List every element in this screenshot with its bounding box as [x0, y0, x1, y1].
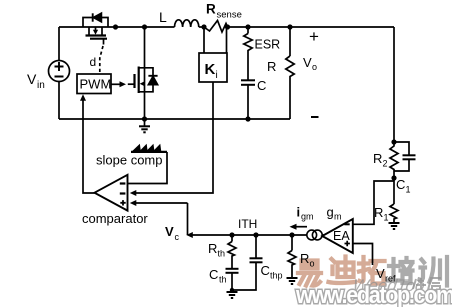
- wire ITH rail: [189, 234, 307, 236]
- label Vo plus: [309, 27, 319, 46]
- capacitor Cth: [226, 269, 239, 290]
- wire coil to Rsense: [199, 26, 204, 28]
- svg-text:V: V: [27, 71, 37, 87]
- svg-text:www.edatop.com: www.edatop.com: [295, 281, 452, 307]
- watermark www.edatop.com: [295, 281, 452, 307]
- svg-text:g: g: [327, 205, 334, 220]
- label gm: [327, 205, 342, 222]
- node dot divider: [391, 175, 396, 180]
- wire top rail right: [228, 26, 395, 28]
- svg-text:V: V: [376, 266, 385, 281]
- label Vin: [27, 71, 45, 91]
- wire EA minus input: [353, 181, 394, 224]
- resistor R load: [286, 27, 294, 119]
- svg-text:+: +: [309, 27, 319, 46]
- body arrow Q1: [93, 30, 98, 35]
- ground Ro: [287, 278, 298, 284]
- char yi: [298, 261, 321, 286]
- node dot ESR bottom: [245, 116, 250, 121]
- label Vref: [376, 266, 396, 284]
- EA plus: [345, 241, 350, 246]
- svg-text:K: K: [205, 61, 216, 78]
- svg-text:in: in: [37, 80, 45, 91]
- svg-text:th: th: [218, 249, 226, 259]
- node dot Cthp: [253, 232, 258, 237]
- node dot Rsense right: [225, 24, 230, 29]
- ground R1: [389, 223, 400, 229]
- svg-text:ref: ref: [385, 274, 396, 284]
- EA minus: [344, 223, 349, 225]
- svg-text:d: d: [90, 55, 97, 69]
- svg-text:C: C: [257, 78, 266, 93]
- comparator minus mid: [120, 192, 126, 194]
- arrow igm: [290, 224, 308, 230]
- wire Vc to comparator plus: [135, 202, 188, 204]
- ground Cth: [227, 288, 238, 298]
- resistor R2: [390, 142, 398, 171]
- resistor Ro: [288, 235, 296, 278]
- svg-text:C: C: [209, 267, 218, 282]
- sense lead right Ki: [226, 27, 228, 53]
- block Ki: [199, 53, 227, 82]
- svg-text:gm: gm: [301, 212, 314, 222]
- svg-text:i: i: [216, 70, 218, 81]
- svg-text:C: C: [396, 177, 405, 192]
- comparator plus: [120, 200, 125, 205]
- svg-text:PWM: PWM: [80, 77, 112, 92]
- node dot Q2 branch: [142, 24, 147, 29]
- label igm: [297, 205, 314, 222]
- body arrow Q2: [140, 81, 145, 86]
- resistor Rth: [228, 235, 236, 269]
- svg-text:th: th: [219, 275, 227, 285]
- svg-text:thp: thp: [270, 271, 283, 281]
- wire cs to EA: [322, 234, 324, 236]
- svg-text:R: R: [208, 241, 217, 256]
- node dot Ro: [289, 232, 294, 237]
- comparator minus top: [120, 182, 126, 184]
- watermark chinese text salmon part: [298, 257, 385, 286]
- node dot R branch: [287, 24, 292, 29]
- arrow Vc left: [186, 232, 193, 238]
- svg-text:comparator: comparator: [82, 211, 148, 226]
- capacitor C1 parallel: [394, 142, 416, 171]
- label R: [267, 59, 276, 74]
- label d: [90, 55, 97, 69]
- char pei: [388, 258, 413, 283]
- label Vc: [165, 224, 180, 242]
- arrow into PWM: [80, 94, 86, 101]
- svg-text:ESR: ESR: [255, 38, 281, 52]
- node dot ESR branch: [245, 24, 250, 29]
- wire top rail left: [59, 26, 83, 28]
- wire top rail under diode: [83, 26, 175, 28]
- label Cthp: [261, 263, 283, 281]
- transistor Q1 high-side PMOS: [83, 18, 108, 45]
- svg-text:slope comp: slope comp: [96, 153, 162, 168]
- svg-text:ITH: ITH: [238, 217, 257, 231]
- svg-text:m: m: [334, 212, 342, 222]
- label ESR: [255, 38, 281, 52]
- label PWM: [80, 77, 112, 92]
- comparator U1: [95, 175, 128, 211]
- resistor R1: [390, 204, 398, 223]
- svg-text:o: o: [310, 259, 315, 269]
- label R2: [373, 151, 388, 169]
- svg-text:L: L: [159, 9, 167, 25]
- wire bottom rail: [59, 82, 290, 120]
- char xun: [420, 257, 448, 286]
- svg-text:R: R: [206, 2, 216, 17]
- label Vo: [303, 55, 317, 72]
- svg-text:R: R: [267, 59, 276, 74]
- node dot Rsense left: [201, 24, 206, 29]
- svg-text:V: V: [303, 55, 312, 70]
- capacitor C: [241, 53, 255, 119]
- arrow into comparator minus: [130, 190, 137, 196]
- label Cth: [209, 267, 227, 285]
- char di: [329, 257, 356, 284]
- label Rth: [208, 241, 225, 259]
- label ITH: [238, 217, 257, 231]
- resistor ESR: [244, 27, 252, 53]
- svg-text:o: o: [312, 62, 317, 72]
- svg-text:R: R: [373, 151, 382, 166]
- label comparator: [82, 211, 148, 226]
- sense lead left Ki: [203, 27, 205, 53]
- transistor Q2 low-side NMOS: [128, 27, 145, 119]
- gate drive dashed line d: [100, 46, 103, 73]
- PWM block: [77, 74, 111, 94]
- svg-text:EA: EA: [333, 229, 350, 243]
- label C1: [396, 177, 411, 195]
- svg-text:1: 1: [384, 213, 389, 223]
- wire Vo right vertical: [393, 27, 395, 142]
- body diode D1: [93, 13, 102, 22]
- wire Vc vertical: [187, 203, 189, 235]
- label L: [159, 9, 167, 25]
- watermark script logo: [351, 276, 425, 295]
- svg-text:R: R: [374, 205, 383, 220]
- wire EA plus input to Vref: [353, 244, 373, 266]
- svg-text:sense: sense: [217, 10, 242, 21]
- svg-text:c: c: [175, 232, 180, 242]
- svg-text:2: 2: [383, 159, 388, 169]
- label Ro: [300, 251, 315, 269]
- arrow into comparator plus: [130, 200, 137, 206]
- voltage source Vin: [49, 61, 70, 82]
- resistor Rsense: [204, 21, 228, 33]
- sawtooth slope waveform: [133, 145, 161, 151]
- inductor L: [175, 20, 199, 27]
- char tuo: [359, 257, 385, 284]
- node dot R2 top: [391, 139, 396, 144]
- svg-text:i: i: [297, 205, 301, 220]
- svg-text:1: 1: [406, 185, 411, 195]
- watermark gray chars: [413, 278, 441, 290]
- node dot switch: [113, 24, 118, 29]
- svg-text:V: V: [165, 224, 174, 239]
- label R1: [374, 205, 389, 223]
- node dot Rth: [229, 232, 234, 237]
- wire comparator output to PWM: [83, 97, 95, 193]
- wire slope comp to comparator: [128, 152, 168, 184]
- watermark chinese text gray part: [388, 257, 447, 286]
- label Rsense: [206, 2, 242, 21]
- current source gm: [307, 230, 322, 240]
- wire R2 bottom to R1: [393, 171, 395, 204]
- wire Ki output to comparator: [135, 82, 213, 193]
- body diode D2: [145, 68, 158, 92]
- PWM output arrow to gate: [111, 81, 126, 87]
- label EA: [333, 229, 350, 243]
- capacitor Cthp: [232, 235, 263, 290]
- ground main: [139, 116, 150, 132]
- label Vo minus: [311, 116, 319, 118]
- label Ki: [205, 61, 218, 81]
- wire Vin top to rail: [58, 27, 60, 61]
- label slope comp: [96, 153, 162, 168]
- label C: [257, 78, 266, 93]
- svg-text:R: R: [300, 251, 309, 266]
- svg-text:C: C: [261, 263, 270, 278]
- op-amp EA: [322, 219, 353, 253]
